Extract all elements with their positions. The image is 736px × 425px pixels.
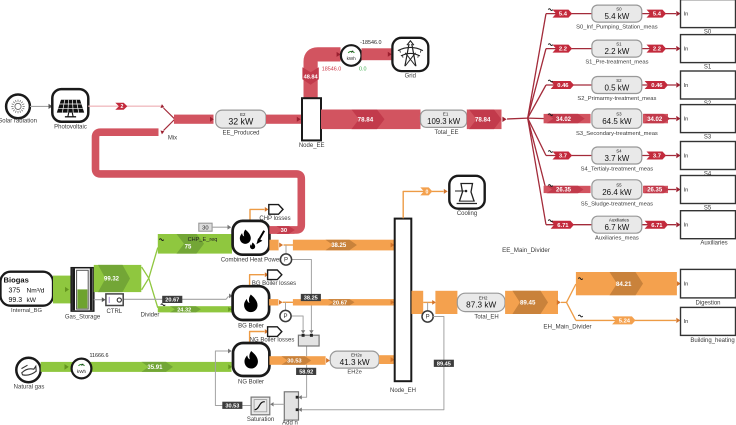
svg-text:64.5 kW: 64.5 kW [602,117,632,126]
svg-text:18546.0: 18546.0 [322,66,342,72]
solar radiation source [0,95,37,125]
svg-text:26.4 kW: 26.4 kW [602,188,632,197]
svg-text:In: In [684,83,689,89]
node Node_EE [299,98,325,149]
svg-text:kWh: kWh [77,369,87,374]
svg-text:S1: S1 [704,65,712,71]
svg-text:P: P [283,314,287,320]
band BG heat to Node_EH chevron 20.67 [293,299,395,306]
controller CTRL [94,294,233,315]
energy meter kWh gas [72,359,92,379]
svg-text:89.45: 89.45 [520,300,536,307]
svg-text:Biogas: Biogas [4,276,29,285]
meter box Total_EE 109.3 kW [421,110,467,136]
svg-text:5.4 kW: 5.4 kW [604,12,629,21]
BG boiler heat stub and wire [269,299,293,310]
svg-text:Solar radiation: Solar radiation [0,119,37,125]
energy meter kWh electric [341,45,362,66]
svg-text:78.84: 78.84 [358,117,374,124]
svg-text:30.53: 30.53 [225,403,239,409]
svg-text:S2: S2 [616,78,622,83]
divider branch to BG boiler band 24.32 [158,304,232,313]
wire PV to Mix value 2 [88,103,161,110]
pipe Node_EE to kWh meter and chevron 48.84 [302,52,340,99]
divider branch to CHP band 75 CHP_E_req [149,234,232,308]
svg-text:CHP_E_req: CHP_E_req [188,237,218,243]
svg-text:58.92: 58.92 [299,369,313,375]
band biogas to gas storage [53,276,72,304]
cooling wire from Node_EH value 0 [403,187,448,218]
svg-text:30: 30 [281,228,287,234]
adder Add n block [270,392,298,425]
NG Boiler losses tag [250,327,295,344]
divider branch row S2 value 0.46 [528,71,736,118]
svg-text:P: P [284,258,288,264]
divider branch row Auxiliaries value 6.71 [528,118,736,247]
meter box EE_Produced 32 kW [216,110,266,137]
svg-text:EE_Main_Divider: EE_Main_Divider [502,247,550,254]
svg-text:EH2e: EH2e [347,369,362,375]
band gas storage to Divider with chevron 99.32 [94,265,149,292]
svg-text:In: In [684,154,689,160]
meter box Total_EH 87.3 kW [457,293,505,321]
band natural gas to kWh meter [41,362,232,372]
svg-text:38.25: 38.25 [331,243,347,249]
red feedback pipe CHP to Mix [96,132,302,230]
band EE_Produced to Node_EE [266,115,301,124]
svg-text:30: 30 [202,226,208,232]
divider branch row S3 value 34.02 [528,105,736,141]
svg-text:In: In [684,319,689,325]
adder block two inputs [298,334,319,346]
photovoltaic PV [52,89,88,130]
svg-text:34.02: 34.02 [556,117,572,123]
feedback wire P to Add n [298,317,444,412]
setpoint box 30 to CHP [199,223,231,231]
node Node_EH [390,219,416,394]
svg-text:Total_EE: Total_EE [434,130,458,136]
svg-text:Mix: Mix [168,136,177,142]
svg-text:Auxiliaries_meas: Auxiliaries_meas [595,236,639,242]
svg-text:Saturation: Saturation [247,417,274,423]
control loop NG boiler saturation [215,349,251,406]
svg-text:Grid: Grid [405,74,416,80]
divider branch row S0 value 5.4 [528,0,736,118]
svg-text:20.67: 20.67 [333,300,348,306]
svg-text:0.5 kW: 0.5 kW [604,83,629,92]
svg-text:6.71: 6.71 [557,223,569,229]
stub Node_EH out heat [412,291,436,314]
saturation block [247,397,274,423]
CHP losses tag [250,205,291,223]
storage Gas_Storage [65,268,101,321]
svg-text:2.2: 2.2 [559,47,567,53]
band NG heat to EH2e chevron 30.53 [269,356,330,365]
svg-text:EE_Produced: EE_Produced [222,131,259,137]
divider branch row S1 value 2.2 [528,35,736,119]
band Total_EE to EE divider with chevron 78.84 [467,110,528,130]
svg-text:S5: S5 [616,182,622,187]
svg-text:Auxiliaries: Auxiliaries [609,218,630,223]
signal badge 38.25 [301,294,321,301]
svg-text:S4: S4 [616,148,622,153]
sensor P bg heat [280,310,291,321]
svg-text:0: 0 [425,189,428,195]
svg-text:Photovoltaic: Photovoltaic [54,124,87,130]
svg-text:Auxiliaries: Auxiliaries [700,241,727,247]
svg-text:99.32: 99.32 [104,277,120,283]
signal badge 58.92 [296,368,316,375]
svg-text:Digestion: Digestion [695,301,720,307]
svg-text:kW: kW [27,297,37,304]
svg-text:S3: S3 [704,135,712,141]
band Total_EH to EH divider chevron 89.45 [505,291,566,314]
svg-text:6.7 kW: 6.7 kW [604,223,629,232]
svg-text:5.4: 5.4 [559,12,568,18]
svg-text:Building_heating: Building_heating [690,338,734,344]
unit Combined Heat Power CHP [221,221,281,264]
svg-text:2.2: 2.2 [653,47,661,53]
svg-text:S1: S1 [616,42,622,47]
mix junction Mix [160,104,177,141]
svg-text:26.35: 26.35 [556,188,572,194]
EH divider junction [543,284,591,331]
svg-text:48.84: 48.84 [304,75,319,81]
band CHP heat to Node_EH chevron 38.25 [293,240,395,251]
svg-text:375: 375 [9,288,21,295]
CHP heat stub and wire [269,240,293,254]
svg-text:38.25: 38.25 [304,296,318,302]
svg-text:In: In [684,223,689,229]
svg-text:S0: S0 [616,7,622,12]
svg-text:75: 75 [185,244,192,250]
divider branch row S5 value 26.35 [528,118,736,211]
band EH2e to Node_EH [379,355,394,364]
band Node_EE to Total_EE with chevron 78.84 [321,110,421,130]
svg-text:S1_Pre-treatment_meas: S1_Pre-treatment_meas [585,60,648,66]
svg-text:2.2 kW: 2.2 kW [604,47,629,56]
svg-text:NG Boiler: NG Boiler [238,380,264,386]
svg-text:5.4: 5.4 [653,12,662,18]
unit NG Boiler [233,343,269,386]
svg-text:Total_EH: Total_EH [474,315,498,321]
svg-text:2: 2 [120,104,123,110]
signal badge 89.45 feedback [434,360,454,367]
svg-text:3.7 kW: 3.7 kW [604,154,629,163]
svg-text:Add n: Add n [282,420,298,425]
wire divider to Building_heating value 5.24 [576,315,680,324]
svg-text:11666.6: 11666.6 [89,353,108,359]
svg-text:S3_Secondary-treatment_meas: S3_Secondary-treatment_meas [576,131,658,137]
svg-text:Nm³/d: Nm³/d [27,288,45,295]
svg-text:Node_EE: Node_EE [299,143,325,149]
svg-text:In: In [684,282,689,288]
svg-text:S0_Inf_Pumping_Station_meas: S0_Inf_Pumping_Station_meas [576,25,658,31]
svg-text:P: P [426,315,430,321]
grid connection Grid [392,38,428,80]
svg-text:Divider: Divider [141,312,160,318]
svg-text:78.84: 78.84 [475,117,491,124]
svg-text:109.3 kW: 109.3 kW [427,117,461,126]
svg-text:S5_Sludge-treatment_meas: S5_Sludge-treatment_meas [581,202,653,208]
svg-text:S2_Primarmy-treatment_meas: S2_Primarmy-treatment_meas [577,96,656,102]
natural gas source [14,358,45,391]
svg-text:S4_Tertialy-treatment_meas: S4_Tertialy-treatment_meas [581,167,654,173]
svg-text:34.02: 34.02 [647,117,663,123]
divider branch row S4 value 3.7 [528,118,736,177]
svg-text:3.7: 3.7 [559,154,567,160]
svg-text:-18546.0: -18546.0 [360,40,381,46]
stub into Total_EH [435,291,457,314]
svg-text:30.53: 30.53 [287,359,302,365]
svg-text:0.46: 0.46 [557,83,569,89]
svg-text:99.3: 99.3 [9,297,23,304]
sensor P chp heat [280,254,291,265]
svg-text:0.0: 0.0 [359,66,367,72]
unit BG Boiler [233,286,270,329]
arrow into NG boiler [228,364,232,369]
svg-text:In: In [684,47,689,53]
svg-text:Combined Heat Power: Combined Heat Power [221,258,281,264]
signal badge 30.53 [222,402,242,409]
signal wires P sensors to adder [291,260,314,400]
svg-text:89.45: 89.45 [437,361,451,367]
svg-text:CTRL: CTRL [106,309,122,315]
wire solar to photovoltaic [30,104,53,109]
chevron 35.91 on gas band [142,362,174,372]
svg-text:EH2: EH2 [479,295,488,300]
svg-text:In: In [684,188,689,194]
svg-text:41.3 kW: 41.3 kW [340,358,370,367]
svg-text:5.24: 5.24 [619,319,631,325]
svg-text:20.67: 20.67 [165,297,179,303]
source Internal_BG biogas [1,272,54,314]
svg-text:6.71: 6.71 [651,223,663,229]
meter box EH2e 41.3 kW [330,351,379,375]
svg-text:Internal_BG: Internal_BG [11,308,42,314]
svg-text:EH_Main_Divider: EH_Main_Divider [543,324,591,331]
band Mix to EE_Produced [174,115,214,124]
sink Building_heating [681,307,736,343]
svg-text:Node_EH: Node_EH [390,388,416,394]
signal badge 20.67 on CTRL wire [162,296,182,303]
band divider to Digestion chevron 84.21 [576,272,681,295]
svg-text:Natural gas: Natural gas [14,384,45,390]
BG Boiler losses tag [250,270,297,287]
svg-text:Cooling: Cooling [457,211,477,217]
svg-text:87.3 kW: 87.3 kW [466,301,496,310]
svg-text:In: In [684,12,689,18]
svg-text:35.91: 35.91 [147,365,163,371]
svg-text:84.21: 84.21 [616,281,632,288]
unit Cooling [449,176,484,217]
svg-text:0.46: 0.46 [651,83,663,89]
svg-text:In: In [684,117,689,123]
svg-text:E1: E1 [443,112,449,117]
band kWh to Grid [362,48,392,60]
svg-text:kWh: kWh [347,56,357,61]
svg-text:S3: S3 [616,112,622,117]
svg-text:24.32: 24.32 [177,307,191,313]
svg-text:32 kW: 32 kW [228,116,254,126]
sink Digestion [681,269,736,306]
svg-text:26.35: 26.35 [647,188,663,194]
svg-text:Gas_Storage: Gas_Storage [65,314,101,320]
band CHP electricity out chevron 30 [269,226,294,234]
svg-text:BG Boiler: BG Boiler [238,324,264,330]
svg-text:3.7: 3.7 [653,154,661,160]
svg-text:EH2e: EH2e [351,353,363,358]
sensor P total heat [422,311,433,322]
